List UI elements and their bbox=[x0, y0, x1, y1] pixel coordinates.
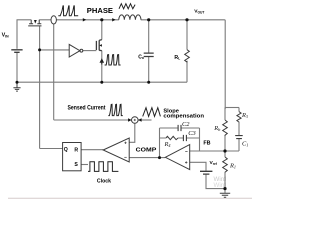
ground VIN bbox=[13, 82, 20, 91]
svg-text:RL: RL bbox=[174, 55, 180, 61]
wire R3 C1 leads bbox=[238, 108, 240, 152]
current sense CS bbox=[51, 16, 56, 24]
svg-text:Vref: Vref bbox=[210, 160, 218, 166]
svg-text:C2: C2 bbox=[182, 121, 190, 128]
wire sensed current horizontal to summer bbox=[54, 119, 132, 121]
wire EA output to comparator bbox=[129, 157, 165, 159]
wire NMOS source down to ground rail bbox=[101, 51, 103, 83]
resistor R4 bbox=[166, 136, 178, 139]
waveform NMOS current bbox=[105, 55, 121, 65]
node Co bbox=[147, 18, 150, 21]
svg-text:C3: C3 bbox=[188, 130, 195, 137]
wire driver output to NMOS gate bbox=[83, 50, 97, 52]
svg-text:R4: R4 bbox=[164, 141, 171, 148]
summing node S1 bbox=[132, 117, 139, 124]
arrow up NMOS current bbox=[100, 59, 103, 64]
comparator plus bbox=[124, 142, 126, 144]
node Co ground bbox=[147, 81, 150, 84]
svg-text:R3: R3 bbox=[241, 112, 248, 119]
transistor Q1 PMOS arrow bbox=[34, 20, 37, 24]
capacitor C3 bbox=[183, 135, 186, 141]
svg-text:FB: FB bbox=[203, 140, 210, 146]
battery Vref bbox=[200, 171, 212, 174]
wire C2 branch bbox=[160, 127, 200, 129]
svg-text:S: S bbox=[74, 162, 78, 168]
node EA output bbox=[158, 156, 161, 159]
waveform switch node bbox=[58, 6, 78, 16]
ground right bbox=[220, 193, 230, 197]
wire sense to phase node bbox=[56, 19, 101, 21]
error amp U1 bbox=[165, 145, 189, 170]
svg-text:Sensed Current: Sensed Current bbox=[68, 105, 107, 112]
svg-text:Rb: Rb bbox=[213, 125, 221, 132]
wire ground stub right bbox=[224, 189, 226, 193]
capacitor Co bbox=[144, 53, 154, 56]
transistor Q2 NMOS bbox=[96, 40, 101, 51]
resistor R2 bbox=[223, 120, 228, 136]
wire RL bottom bbox=[186, 63, 188, 83]
node battery ground bbox=[16, 81, 19, 84]
battery VIN bbox=[11, 50, 22, 53]
driver bubble bbox=[80, 49, 83, 52]
wire compensation right rail bbox=[199, 128, 201, 151]
svg-text:Clock: Clock bbox=[97, 178, 112, 184]
driver U2 bbox=[69, 44, 80, 57]
wire gate node to driver input bbox=[40, 49, 70, 51]
wire EA plus input to Vref bbox=[190, 162, 207, 170]
node FB bbox=[223, 149, 226, 152]
wire phase node to inductor bbox=[102, 19, 119, 21]
wire R2 leads bbox=[224, 108, 226, 152]
svg-text:R1: R1 bbox=[229, 163, 236, 170]
wire summer to comparator input bbox=[129, 123, 135, 142]
wire compensation left rail bbox=[159, 128, 161, 158]
faint footer line bbox=[8, 197, 252, 199]
svg-text:R: R bbox=[74, 147, 78, 153]
arrow sensed current bbox=[128, 118, 131, 121]
error amp minus bbox=[185, 151, 187, 153]
node Vref return bbox=[223, 187, 226, 190]
wire VIN battery bottom to ground rail bbox=[16, 53, 18, 82]
transistor Q1 PMOS bbox=[28, 20, 41, 26]
svg-text:PHASE: PHASE bbox=[87, 6, 113, 15]
transistor Q2 NMOS arrow bbox=[99, 44, 102, 47]
wire sensed current vertical bbox=[53, 24, 55, 120]
comparator U3 bbox=[103, 138, 129, 162]
waveform sensed current bbox=[108, 104, 123, 115]
waveform clock bbox=[88, 162, 118, 172]
comparator minus bbox=[124, 156, 126, 158]
node RL bbox=[185, 18, 188, 21]
wire R4 C3 branch bbox=[160, 137, 200, 139]
wire ground rail bbox=[17, 81, 187, 83]
wire R1 leads bbox=[224, 151, 226, 189]
node NMOS source bbox=[100, 81, 103, 84]
wire divider tee bbox=[225, 107, 239, 109]
resistor R3 bbox=[237, 112, 241, 123]
wire FB line bbox=[190, 150, 240, 152]
svg-text:Q: Q bbox=[64, 147, 68, 153]
wire inductor to VOUT corner bbox=[141, 20, 225, 109]
wire VIN battery top bbox=[16, 20, 18, 49]
flip-flop U4 bbox=[63, 143, 82, 171]
wire flip-flop S input bbox=[81, 164, 88, 166]
wire PMOS to sense bbox=[39, 19, 51, 21]
wire slope comp stub bbox=[138, 119, 151, 121]
wire comparator output to flip-flop R bbox=[81, 149, 103, 151]
summing node plus left bbox=[134, 119, 136, 121]
wire Q output to flip-flop bbox=[40, 148, 63, 150]
wire NMOS drain vertical bbox=[101, 20, 103, 40]
svg-text:compensation: compensation bbox=[163, 114, 204, 120]
node phase bbox=[100, 18, 103, 21]
inductor L bbox=[119, 15, 141, 20]
arrow phase left bbox=[83, 18, 86, 21]
arrow slope comp bbox=[138, 118, 141, 121]
svg-text:COMP: COMP bbox=[136, 147, 157, 153]
wire Co bottom bbox=[148, 57, 150, 82]
capacitor C1 bbox=[235, 136, 243, 139]
svg-text:Co: Co bbox=[138, 54, 144, 60]
node gate bbox=[38, 48, 41, 51]
resistor R1 bbox=[223, 157, 228, 172]
wire top rail to PMOS bbox=[17, 19, 32, 21]
waveform slope compensation bbox=[143, 108, 161, 117]
wire Vref return bbox=[206, 175, 225, 189]
wire RL top bbox=[186, 20, 188, 50]
wire PMOS gate vertical down to Q bbox=[39, 26, 41, 148]
svg-text:C1: C1 bbox=[242, 141, 248, 148]
resistor RL bbox=[185, 50, 190, 63]
error amp plus bbox=[185, 161, 187, 163]
arrow phase right bbox=[112, 18, 115, 21]
wire Co top bbox=[148, 20, 150, 53]
capacitor C2 bbox=[178, 125, 181, 131]
waveform inductor ripple bbox=[119, 4, 135, 9]
